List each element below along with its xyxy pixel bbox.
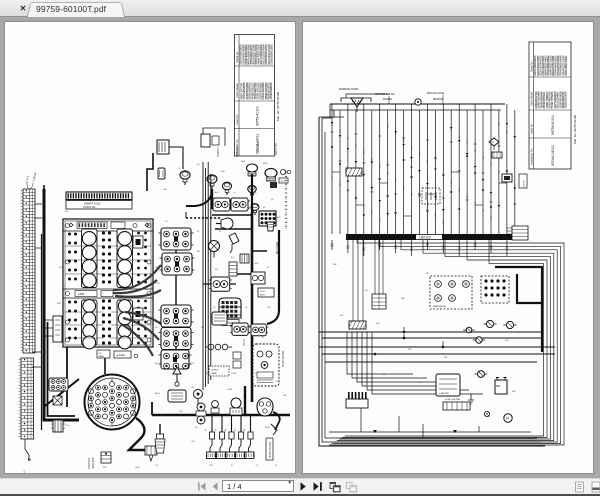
- trim pump hoses: [45, 320, 53, 336]
- svg-text:63C: 63C: [365, 290, 369, 292]
- trunk right main: [251, 174, 253, 212]
- svg-text:27918 05888718: 27918 05888718: [269, 82, 273, 100]
- bus H5: [325, 361, 537, 363]
- svg-text:TRIM & OIL: TRIM & OIL: [83, 206, 96, 209]
- spark plug leads: [211, 415, 213, 432]
- svg-text:037: 037: [499, 170, 501, 173]
- svg-text:18D: 18D: [408, 349, 412, 351]
- svg-text:LAMP: LAMP: [211, 372, 217, 375]
- fuse F1: [476, 337, 482, 343]
- svg-text:24B: 24B: [376, 323, 380, 325]
- svg-text:8G: 8G: [197, 164, 200, 166]
- svg-text:-A: -A: [245, 306, 248, 309]
- connector pair CP1: [201, 134, 210, 147]
- svg-text:513: 513: [435, 167, 437, 170]
- bus connector twin: [197, 403, 205, 411]
- last-page button: [314, 482, 322, 491]
- small pilot lamp: [281, 170, 286, 175]
- smart tool label box: [66, 201, 132, 210]
- frame top hook: [319, 117, 344, 118]
- svg-text:13A: 13A: [333, 263, 337, 266]
- trunk sensor drop: [212, 189, 235, 208]
- bar drop connectors: [331, 240, 333, 250]
- svg-text:-Y9: -Y9: [255, 465, 259, 467]
- side tag: [519, 174, 527, 188]
- svg-text:21142-48567-39222: 21142-48567-39222: [564, 55, 568, 76]
- trim sender S1: [180, 171, 190, 185]
- buzzer BZ: [209, 241, 220, 252]
- svg-text:PURPLE: PURPLE: [383, 99, 393, 101]
- svg-text:L9L: L9L: [191, 387, 195, 389]
- dashed control line: [186, 217, 221, 219]
- ignition coil IC1: [161, 228, 191, 250]
- svg-text:80F: 80F: [426, 273, 430, 275]
- bottom bus: [152, 414, 290, 417]
- svg-text:52Y: 52Y: [155, 327, 159, 329]
- svg-text:450: 450: [380, 218, 382, 221]
- signal lines (vertical ladder): [331, 104, 333, 234]
- heavy feed loop: [495, 267, 542, 303]
- X box connector: [53, 396, 62, 405]
- fuel cap S5: [265, 169, 277, 178]
- relay box K1: [157, 140, 169, 154]
- ignition switch assembly: [231, 398, 241, 408]
- bracket B1: [147, 153, 153, 191]
- svg-text:R5Y5: R5Y5: [155, 283, 161, 285]
- regulator R2: [231, 198, 248, 211]
- svg-text:OIL LEVEL: OIL LEVEL: [257, 139, 260, 152]
- bottom arrows: [373, 430, 457, 433]
- PCM twin connector 2: [251, 324, 266, 336]
- label box LB1: [258, 288, 274, 297]
- svg-text:8L: 8L: [231, 465, 234, 467]
- CN9 labelbox: [222, 320, 239, 326]
- mid drops 2: [375, 240, 383, 294]
- frame line left outer: [319, 117, 545, 446]
- kill switch: [194, 390, 203, 399]
- document tab: [27, 1, 123, 16]
- svg-text:616: 616: [215, 269, 219, 271]
- title block frame: [235, 35, 275, 157]
- tab bar: [0, 0, 600, 17]
- svg-text:096: 096: [515, 137, 517, 140]
- svg-text:874: 874: [427, 207, 429, 210]
- svg-text:G5W: G5W: [135, 467, 140, 469]
- grommet tail: [273, 412, 280, 430]
- distributor-engine link: [104, 358, 106, 374]
- trim sender S2: [207, 175, 217, 189]
- svg-text:533: 533: [411, 146, 413, 149]
- top bus wire 2: [330, 109, 501, 111]
- bottom bus links: [361, 408, 479, 438]
- svg-text:VOLT: VOLT: [260, 291, 266, 293]
- engine tie lines: [65, 245, 151, 247]
- temp sensor S7: [251, 204, 259, 215]
- relay block RB1: [430, 276, 472, 309]
- frame line left third: [325, 132, 537, 438]
- svg-text:679: 679: [419, 200, 421, 203]
- svg-text:44R: 44R: [51, 387, 55, 389]
- svg-text:▲ FUEL: ▲ FUEL: [116, 354, 126, 357]
- svg-text:79426 94133055: 79426 94133055: [564, 91, 568, 109]
- svg-text:WARNING HORN: WARNING HORN: [339, 88, 358, 91]
- svg-text:146: 146: [348, 190, 350, 193]
- single-page-view icon: [576, 482, 584, 492]
- svg-text:783: 783: [267, 307, 271, 309]
- svg-text:AW-4: AW-4: [155, 392, 161, 395]
- svg-text:L2: L2: [219, 231, 222, 233]
- svg-text:064: 064: [411, 193, 413, 196]
- heavy feed stub: [541, 303, 543, 352]
- ignition coil IC4: [161, 328, 191, 350]
- svg-text:527: 527: [443, 174, 445, 177]
- svg-text:HARNESS: HARNESS: [92, 457, 95, 469]
- small stack: [229, 262, 237, 276]
- svg-text:4: 4: [234, 428, 236, 432]
- small rect pair: [233, 352, 241, 359]
- svg-text:150: 150: [403, 139, 405, 142]
- mini blocks: [240, 254, 249, 263]
- svg-text:868: 868: [103, 467, 107, 469]
- title block frame: [529, 42, 571, 169]
- bus junction dots: [403, 331, 406, 334]
- next-page button: [301, 482, 306, 491]
- title block header row: [533, 42, 535, 169]
- bus H1: [319, 331, 542, 333]
- svg-text:911: 911: [515, 184, 517, 187]
- svg-text:CHECK: CHECK: [211, 370, 219, 372]
- check box: [209, 366, 229, 376]
- pressure sensor S6: [248, 185, 257, 197]
- window bottom edge: [0, 494, 600, 496]
- trunk elbow left: [186, 189, 212, 206]
- svg-text:797: 797: [467, 142, 469, 145]
- svg-text:-60Y: -60Y: [191, 441, 196, 443]
- hatched block HB2: [349, 321, 366, 329]
- stitch column: [285, 170, 287, 230]
- clip B2: [158, 168, 165, 179]
- harness bundle vertical: [203, 162, 211, 390]
- svg-text:096: 096: [356, 197, 358, 200]
- junction table JT1: [372, 294, 386, 309]
- rectifier grid block: [259, 211, 276, 226]
- coil stack links: [175, 250, 177, 350]
- svg-text:B-: B-: [255, 193, 257, 195]
- svg-text:95: 95: [251, 287, 254, 289]
- svg-text:57E: 57E: [505, 340, 509, 342]
- svg-text:99759-60100: 99759-60100: [256, 106, 260, 126]
- svg-text:829: 829: [340, 130, 342, 133]
- pump motor assembly: [253, 344, 279, 386]
- svg-text:58R: 58R: [57, 303, 61, 305]
- diamond D1: [489, 138, 499, 146]
- main harness connector (round): [85, 375, 140, 430]
- svg-text:STARTER: STARTER: [439, 392, 449, 395]
- trunk diagonal branch: [45, 379, 79, 406]
- svg-text:766: 766: [435, 214, 437, 217]
- engine head bolts: [102, 231, 105, 234]
- svg-text:581: 581: [395, 132, 397, 135]
- svg-text:774: 774: [348, 137, 350, 140]
- svg-text:P-1: P-1: [25, 175, 30, 180]
- bus H4: [322, 353, 555, 355]
- main harness trunk A: [44, 189, 79, 420]
- svg-text:-2W6: -2W6: [220, 171, 226, 173]
- svg-text:A4Y: A4Y: [277, 216, 281, 219]
- svg-text:Used for: Used for: [235, 115, 239, 125]
- bus riser left: [151, 402, 153, 415]
- main junction bar: [346, 234, 512, 240]
- right schematic page: [302, 21, 594, 474]
- svg-text:5YR: 5YR: [209, 465, 213, 467]
- previous-page button (disabled): [213, 483, 218, 491]
- svg-text:TRIM DN: TRIM DN: [236, 147, 239, 157]
- harness bundle: [113, 265, 161, 356]
- svg-text:BAT: BAT: [496, 385, 501, 388]
- svg-text:WL: WL: [197, 251, 201, 253]
- svg-text:980: 980: [491, 216, 493, 219]
- svg-text:30B: 30B: [512, 391, 516, 393]
- svg-text:256: 256: [483, 209, 485, 212]
- bus H2: [322, 337, 542, 339]
- svg-text:970: 970: [451, 128, 453, 131]
- svg-text:584: 584: [388, 172, 390, 175]
- warning horn H1: [351, 98, 363, 107]
- connector stack C1: [101, 452, 111, 463]
- lamp L1: [484, 411, 489, 416]
- svg-text:Unit's Model: Unit's Model: [530, 91, 534, 106]
- engine flange bolts: [66, 224, 70, 228]
- nested elbow routing: [329, 240, 564, 445]
- svg-text:6BG: 6BG: [241, 161, 245, 163]
- ignition coil IC5: [161, 350, 189, 369]
- svg-text:FUSE 10A 15A: FUSE 10A 15A: [445, 398, 460, 401]
- svg-text:TRIM UP: TRIM UP: [217, 147, 220, 157]
- top bus wire 1: [330, 103, 505, 105]
- bus connector pair2: [212, 401, 219, 408]
- svg-text:M: M: [506, 417, 509, 421]
- solenoid B: [506, 321, 513, 328]
- svg-text:211: 211: [155, 465, 159, 467]
- wire drop to sensors: [169, 147, 183, 169]
- svg-text:GG: GG: [201, 327, 205, 329]
- main connector CN9: [219, 298, 241, 318]
- svg-text:963G: 963G: [59, 267, 64, 269]
- svg-text:G65: G65: [163, 189, 168, 191]
- ladder feed wires: [32, 204, 42, 367]
- bottom connector CN12: [346, 399, 368, 408]
- svg-text:NOTE: NOTE: [524, 180, 526, 187]
- main harness trunk A2: [48, 322, 76, 416]
- bottom toolbar: [0, 478, 600, 495]
- svg-text:B0: B0: [195, 427, 198, 429]
- motor M1: [504, 414, 512, 422]
- PCM twin connector: [232, 323, 248, 335]
- svg-text:710: 710: [427, 160, 429, 163]
- svg-text:P.C.M.: P.C.M.: [243, 339, 246, 346]
- engine ground symbol: [468, 394, 474, 404]
- svg-text:GA: GA: [283, 394, 287, 397]
- engine small fittings: [133, 236, 143, 248]
- svg-text:GL-5: GL-5: [65, 425, 70, 427]
- svg-text:Used for: Used for: [530, 124, 534, 134]
- svg-text:2: 2: [215, 428, 217, 432]
- terminal strip TB2: [21, 358, 34, 439]
- solenoid A: [486, 320, 493, 327]
- svg-text:97C64-04012: 97C64-04012: [551, 145, 555, 166]
- svg-text:68A: 68A: [401, 297, 405, 300]
- terminal strip TB2 tail: [25, 439, 29, 460]
- svg-text:LDK123: LDK123: [419, 236, 431, 240]
- ignition coil IC2: [162, 253, 192, 275]
- PCM relay: [212, 312, 227, 325]
- terminal strip TB1: [23, 189, 35, 353]
- svg-text:194: 194: [451, 181, 453, 184]
- fuse F2: [478, 371, 485, 378]
- svg-text:A-1: A-1: [23, 470, 26, 473]
- svg-text:858: 858: [340, 183, 342, 186]
- svg-text:RECTIFIER: RECTIFIER: [277, 242, 279, 254]
- svg-text:923: 923: [332, 123, 334, 126]
- left schematic page: [4, 21, 296, 474]
- cross links: [332, 171, 340, 173]
- svg-text:R1: R1: [165, 221, 168, 223]
- svg-text:L4: L4: [213, 307, 216, 309]
- relay K2: [211, 277, 230, 291]
- trunk A top hook: [43, 185, 45, 189]
- svg-text:087: 087: [443, 221, 445, 224]
- svg-text:866: 866: [388, 125, 390, 128]
- svg-text:151: 151: [372, 211, 374, 214]
- svg-text:746: 746: [459, 135, 461, 138]
- svg-text:1: 1: [205, 428, 207, 432]
- engine ground strap: [66, 347, 68, 407]
- diagnostic pin header CN1: [66, 192, 132, 200]
- oil sensor S3: [223, 182, 232, 195]
- ladder side connector grid: [49, 378, 68, 391]
- svg-text:RED/PUR: RED/PUR: [433, 99, 444, 101]
- svg-text:REG: REG: [260, 294, 265, 296]
- hatched connector: [53, 420, 63, 432]
- svg-text:PUMP MOTOR: PUMP MOTOR: [282, 350, 285, 367]
- hatched block HB1: [346, 168, 362, 176]
- svg-text:-25: -25: [261, 337, 265, 339]
- svg-text:IGNITION A&B SW: IGNITION A&B SW: [375, 93, 395, 96]
- svg-text:C-99-09: C-99-09: [31, 172, 37, 183]
- svg-text:9B-: 9B-: [65, 211, 68, 213]
- choke solenoid: [168, 390, 186, 402]
- svg-text:AG1: AG1: [215, 191, 220, 194]
- svg-text:478: 478: [332, 176, 334, 179]
- svg-text:797: 797: [191, 363, 195, 365]
- svg-text:121: 121: [403, 186, 405, 189]
- title block dividers: [529, 76, 571, 78]
- svg-text:B965: B965: [265, 427, 271, 429]
- svg-text:74: 74: [178, 168, 181, 170]
- engine crankcase: [63, 219, 153, 347]
- bus drop mid: [404, 327, 443, 347]
- breaker: [466, 327, 472, 333]
- svg-text:-0L: -0L: [233, 192, 237, 194]
- connector symbols on lines: [331, 122, 334, 124]
- key switch: [221, 218, 233, 229]
- bottom bus B1: [329, 431, 531, 433]
- svg-text:864: 864: [459, 188, 461, 191]
- dark block K6: [502, 174, 512, 182]
- svg-text:MAIN RELAY: MAIN RELAY: [433, 305, 447, 308]
- page number box: [222, 480, 294, 492]
- relay block RB2: [481, 276, 509, 303]
- first-page button (disabled): [197, 483, 206, 491]
- svg-text:BG: BG: [155, 363, 158, 365]
- svg-text:125: 125: [475, 202, 477, 205]
- ignition coil IC3: [161, 305, 191, 327]
- relay K2 tail: [203, 283, 236, 285]
- trunk cross links: [212, 215, 267, 274]
- connector wire loop: [129, 418, 152, 450]
- bus label ticks: [389, 95, 443, 104]
- bus H3: [319, 346, 555, 348]
- regulator R1: [213, 198, 230, 211]
- svg-text:BATT CHG: BATT CHG: [275, 143, 278, 155]
- svg-text:CONTROL: CONTROL: [88, 457, 91, 469]
- svg-text:PUMP MOTOR: PUMP MOTOR: [269, 441, 272, 458]
- svg-text:655: 655: [491, 163, 493, 166]
- svg-text:538: 538: [380, 165, 382, 168]
- starter motor block: [436, 374, 460, 396]
- close button: [16, 3, 30, 14]
- vertical part label: [266, 438, 273, 460]
- top bus left drop: [330, 104, 334, 118]
- engine bottom fittings: [97, 350, 110, 358]
- neutral switch: [173, 367, 181, 374]
- svg-text:90: 90: [263, 207, 266, 209]
- horn bracket loop: [341, 98, 371, 102]
- svg-text:606: 606: [467, 195, 469, 198]
- dashed box DB1: [422, 188, 440, 204]
- svg-text:949: 949: [483, 156, 485, 159]
- lower riser routing: [347, 332, 413, 374]
- svg-text:G03: G03: [179, 411, 184, 413]
- svg-text:5: 5: [244, 428, 246, 432]
- svg-text:552: 552: [475, 149, 477, 152]
- anode bolt: [159, 424, 161, 434]
- title block dividers: [235, 65, 275, 67]
- mid drops: [353, 240, 363, 321]
- fuse strip: [443, 402, 470, 410]
- svg-text:99759-60100: 99759-60100: [551, 115, 555, 135]
- svg-text:03: 03: [275, 465, 278, 467]
- svg-text:759: 759: [419, 153, 421, 156]
- svg-text:04D: 04D: [340, 315, 344, 317]
- svg-text:Pub. No. 99759-60100: Pub. No. 99759-60100: [276, 92, 280, 121]
- svg-text:3: 3: [225, 428, 227, 432]
- svg-text:458: 458: [364, 151, 366, 154]
- plug P3: [229, 233, 239, 244]
- coil pair block: [251, 272, 265, 284]
- fuse list block: [512, 226, 528, 240]
- cylinder bank strips: [82, 229, 98, 288]
- svg-text:310: 310: [364, 204, 366, 207]
- svg-text:01092-81590-13962: 01092-81590-13962: [269, 44, 273, 65]
- svg-text:BW: BW: [255, 263, 258, 265]
- svg-text:64R5: 64R5: [263, 163, 269, 165]
- svg-text:30: 30: [197, 231, 200, 233]
- svg-text:149: 149: [499, 123, 501, 126]
- facing-page-view icon (clipped at edge): [592, 482, 600, 492]
- svg-text:RY: RY: [271, 199, 274, 201]
- svg-text:44: 44: [267, 267, 270, 269]
